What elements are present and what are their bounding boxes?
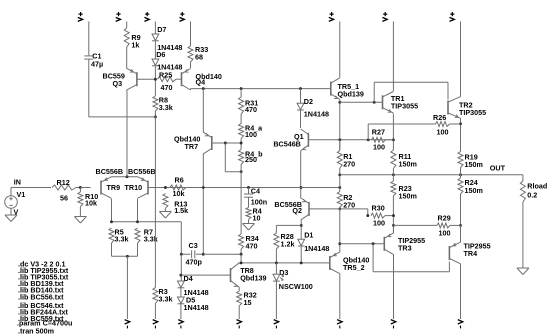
label TR9 <box>107 183 121 192</box>
label TR5_1 Qbd139 <box>338 90 364 99</box>
node R1/R2 mid rail end <box>338 186 341 189</box>
label R6 10k <box>173 189 185 198</box>
wire TR5_1 emitter down <box>339 100 341 150</box>
label R4_a <box>245 124 263 133</box>
svg-text:Q4: Q4 <box>196 77 206 86</box>
svg-text:Q3: Q3 <box>113 79 123 88</box>
resistor R7 <box>135 228 140 243</box>
node R30 right on column <box>392 214 395 217</box>
svg-text:TR7: TR7 <box>185 142 199 151</box>
label D1 1N4148 <box>304 244 329 253</box>
resistor R28 <box>274 233 279 249</box>
label Q2 <box>292 206 302 215</box>
node R12/R10/TR9 junction <box>79 186 82 189</box>
svg-text:3.3k: 3.3k <box>159 103 173 112</box>
wire TR4 base branch <box>373 244 449 272</box>
label R34 470 <box>246 242 258 251</box>
wire R34 node down <box>240 254 242 263</box>
wire C1 to R8 column <box>89 116 156 118</box>
label 68 <box>195 53 203 62</box>
svg-text:100: 100 <box>245 130 257 139</box>
wire R32 to V- <box>238 306 240 319</box>
svg-text:R12: R12 <box>57 178 70 187</box>
wire TR5_2 collector down <box>339 274 341 319</box>
node TR8 base junction <box>179 274 182 277</box>
label R6 <box>175 176 184 185</box>
node tail junction <box>126 175 129 178</box>
resistor R6 <box>170 185 186 190</box>
node OUT R19 <box>459 173 462 176</box>
resistor R27 <box>372 137 386 142</box>
wire D4 column down <box>180 254 182 281</box>
wire TR2 emitter down <box>460 118 462 151</box>
node R30 left <box>366 214 369 217</box>
resistor R9 <box>124 28 129 47</box>
node TR9 collector/R5 <box>110 220 113 223</box>
label R32 <box>244 291 257 300</box>
svg-text:1N4148: 1N4148 <box>184 303 209 312</box>
wire rail to R31 <box>240 89 242 97</box>
wire lower rail <box>241 262 330 264</box>
label R9 <box>131 33 140 42</box>
transistor TR9 BC556B <box>101 177 112 199</box>
svg-text:R29: R29 <box>438 214 451 223</box>
label D6 <box>156 50 165 59</box>
capacitor C4 100n <box>244 194 253 197</box>
label D4 1N4148 <box>184 288 209 297</box>
label Qbd140 Q4 <box>196 72 222 81</box>
resistor R12 <box>52 185 76 190</box>
diode D7 1N4148 <box>152 34 159 41</box>
transistor TR7 Qbd140 <box>203 132 212 154</box>
resistor R19 <box>458 152 463 168</box>
label R29 <box>438 214 451 223</box>
resistor R29 <box>437 223 450 228</box>
node R4ab junction <box>240 142 243 145</box>
label R33 <box>195 45 208 54</box>
wire D6 to node <box>154 67 156 97</box>
wire R5 bottom <box>111 243 113 256</box>
label TR1 TIP3055 <box>391 102 418 111</box>
wire V+ to C1 <box>88 22 90 56</box>
svg-text:TR4: TR4 <box>464 249 478 258</box>
wire D3 stub <box>275 263 277 274</box>
node R27 left <box>367 138 370 141</box>
wire D2 from rail <box>300 89 302 104</box>
label R27 100 <box>373 143 385 152</box>
power flag V+ flag TR5_1 <box>329 12 334 21</box>
wire R19 to rail <box>460 168 462 179</box>
label R4 10 <box>253 214 261 223</box>
power flag V- R32 <box>237 320 242 329</box>
label R5 3.3k <box>115 235 129 244</box>
power flag V+ flag R9 <box>116 12 121 21</box>
wire R4_b bypass <box>225 143 241 172</box>
label TR4 <box>464 249 478 258</box>
node R34 bottom <box>240 253 243 256</box>
node rail R34 column <box>240 261 243 264</box>
wire TR8 base <box>181 274 230 276</box>
svg-text:470: 470 <box>246 242 258 251</box>
svg-text:150m: 150m <box>399 192 417 201</box>
svg-text:1N4148: 1N4148 <box>304 110 329 119</box>
node TR7 emitter on rail <box>202 87 205 90</box>
svg-text:Q2: Q2 <box>292 206 302 215</box>
label R2 <box>343 193 352 202</box>
label R4_b 250 <box>245 155 257 164</box>
resistor R33 <box>188 46 193 62</box>
resistor R8 <box>153 96 158 111</box>
label R26 <box>433 113 446 122</box>
label TR5_1 <box>338 82 360 91</box>
svg-text:1.2k: 1.2k <box>281 240 295 249</box>
label 47u <box>91 60 103 69</box>
label R19 150m <box>465 160 483 169</box>
label R19 <box>465 153 478 162</box>
svg-text:R25: R25 <box>159 71 172 80</box>
wire R27 right lead <box>386 139 394 141</box>
node R4_b bottom <box>240 170 243 173</box>
wire Q1 junction to R1 <box>339 140 341 151</box>
label R23 150m <box>399 192 417 201</box>
svg-text:C4: C4 <box>251 187 260 196</box>
svg-text:.lib BC556.txt: .lib BC556.txt <box>18 292 64 301</box>
label D2 <box>304 97 313 106</box>
wire R9 to Q3 emitter <box>126 47 128 69</box>
label R12 <box>57 178 70 187</box>
transistor TR10 BC556B <box>138 177 149 199</box>
power flag V- D5 <box>178 320 183 329</box>
wire D5 to V- <box>180 304 182 319</box>
node C3 left <box>180 253 183 256</box>
label D3 <box>279 268 288 277</box>
wire D2 to Q1 collector <box>300 110 302 128</box>
label Rload <box>527 182 547 191</box>
node TR1 base junction <box>338 101 341 104</box>
transistor TR8 Qbd139 <box>231 263 240 287</box>
label TR5_2 <box>343 263 365 272</box>
wire Q1 emitter down <box>300 151 302 199</box>
label TR4 TIP2955 <box>464 242 491 251</box>
wire OUT rail <box>340 174 523 176</box>
node rail R28 <box>275 261 278 264</box>
power flag V- TR3 <box>391 320 396 329</box>
ground under R4 <box>243 220 255 231</box>
svg-text:250: 250 <box>245 155 257 164</box>
label R27 <box>372 128 385 137</box>
svg-text:TR3: TR3 <box>398 244 412 253</box>
label R24 <box>465 178 478 187</box>
label TR2 <box>459 101 473 110</box>
label R23 <box>399 184 412 193</box>
resistor R11 <box>391 150 396 169</box>
label 1.5k <box>174 206 188 215</box>
wire R11 to rail <box>392 169 394 182</box>
wire Q3 collector down <box>126 90 128 91</box>
label TR3 TIP2955 <box>398 236 425 245</box>
label R10 <box>85 192 98 201</box>
resistor R31 <box>239 97 244 114</box>
svg-text:0.2: 0.2 <box>527 190 537 199</box>
label R13 <box>174 199 187 208</box>
label 470 <box>161 83 173 92</box>
wire TR5_2 emitter up <box>339 244 341 252</box>
wire mid rail <box>165 187 339 189</box>
svg-text:TIP3055: TIP3055 <box>391 102 418 111</box>
label TR7 <box>185 142 199 151</box>
label R1 270 <box>343 159 355 168</box>
power flag V- D3 <box>274 320 279 329</box>
wire Q2 collector down <box>300 220 302 240</box>
resistor R32 <box>237 291 242 306</box>
svg-text:56: 56 <box>60 194 68 203</box>
power flag V+ flag D7 <box>144 12 149 21</box>
label TR7 Qbd140 <box>174 135 200 144</box>
wire Rload down <box>522 202 524 268</box>
svg-text:BC546B: BC546B <box>273 140 301 149</box>
label C3 <box>189 241 198 250</box>
resistor R1 <box>337 151 342 169</box>
label R4_a 100 <box>245 130 257 139</box>
wire TR3 base rail <box>340 243 385 245</box>
node R29 left on column <box>392 224 395 227</box>
label D2 1N4148 <box>304 110 329 119</box>
wire R26 branch <box>368 124 435 140</box>
label TR10 <box>125 183 143 192</box>
spice directives text block <box>17 260 72 336</box>
wire R1 to OUT rail node <box>339 168 341 192</box>
wire R26 right lead <box>450 123 461 125</box>
transistor Q1 BC546B <box>301 129 309 151</box>
wire R2 bottom to Q2 base row <box>339 208 341 209</box>
resistor Rload <box>520 181 525 202</box>
svg-text:TR5_2: TR5_2 <box>343 263 365 272</box>
node TR7 collector crossing <box>202 186 205 189</box>
wire tail horizontal <box>112 176 138 178</box>
wire C1 down <box>88 59 90 117</box>
node C4 top <box>247 186 250 189</box>
wire TR7 collector down <box>202 154 204 255</box>
wire V+ to R9 <box>126 22 128 29</box>
label BC556B left <box>96 167 124 176</box>
label R24 150m <box>465 186 483 195</box>
transistor TR4 TIP2955 <box>449 242 460 264</box>
resistor R25 <box>158 77 177 82</box>
svg-text:NSCW100: NSCW100 <box>279 282 313 291</box>
power flag V- R3 <box>153 320 158 329</box>
label R34 <box>246 234 259 243</box>
resistor R10 <box>78 188 83 207</box>
voltage source V1 <box>5 196 18 209</box>
resistor R24 <box>458 178 463 194</box>
svg-text:100n: 100n <box>251 198 267 207</box>
diode D1 1N4148 <box>298 239 305 246</box>
wire D3 to V- <box>275 282 277 320</box>
wire R4_a to junction <box>240 139 242 150</box>
label BC556B right <box>128 167 156 176</box>
power flag V+ flag C1 <box>78 12 83 21</box>
wire TR2 base branch <box>374 82 448 102</box>
label 0.2 <box>527 190 537 199</box>
svg-text:D6: D6 <box>156 50 165 59</box>
svg-text:68: 68 <box>195 53 203 62</box>
label R3 3.3k <box>159 295 173 304</box>
label R7 3.3k <box>144 235 158 244</box>
wire D7 to D6 <box>154 42 156 60</box>
svg-text:470: 470 <box>245 105 257 114</box>
resistor R23 <box>391 181 396 196</box>
wire R34 to C3 rail <box>240 249 242 254</box>
node D6/R25/Q3/R8 <box>154 78 157 81</box>
wire R8 to C1 node <box>154 111 156 117</box>
svg-text:D2: D2 <box>304 97 313 106</box>
ground under V1 <box>5 208 17 221</box>
wire VAS rail <box>191 88 331 90</box>
resistor R30 <box>371 213 385 218</box>
svg-text:100: 100 <box>373 219 385 228</box>
wire R31 to R4_a <box>240 114 242 124</box>
node R29 right <box>459 224 462 227</box>
resistor R4 <box>246 208 251 220</box>
label D5 <box>186 296 195 305</box>
svg-text:Qbd139: Qbd139 <box>240 274 266 283</box>
resistor R34 <box>239 234 244 249</box>
label 100n <box>251 198 267 207</box>
capacitor C1 47u <box>84 56 93 59</box>
label D7 1N4148 <box>157 43 182 52</box>
wire TR4 collector down <box>460 264 462 319</box>
label R4_b <box>245 150 263 159</box>
label R4 <box>253 207 262 216</box>
label R8 3.3k <box>159 103 173 112</box>
label 56 <box>60 194 68 203</box>
svg-text:100: 100 <box>437 128 449 137</box>
wire C3 rail to R34 <box>203 253 241 255</box>
wire TR7 base to R4 node <box>212 142 241 144</box>
wire collector rail <box>112 221 182 223</box>
wire R29 right lead <box>450 224 461 226</box>
node R31 top on rail <box>240 87 243 90</box>
label BC559 <box>103 72 125 81</box>
wire R12 to node <box>76 187 91 189</box>
label R31 470 <box>245 105 257 114</box>
wire R4_b to bottom node <box>240 165 242 172</box>
svg-text:270: 270 <box>343 200 355 209</box>
svg-text:470p: 470p <box>186 258 203 267</box>
node TR4 branch <box>372 242 375 245</box>
svg-text:15: 15 <box>244 298 252 307</box>
label R7 <box>144 228 153 237</box>
wire TR10 collector down <box>137 199 139 222</box>
wire C4 to R4 <box>248 197 250 207</box>
wire R29 left lead <box>394 224 438 226</box>
svg-text:OUT: OUT <box>490 164 506 173</box>
node TR2 base branch <box>373 101 376 104</box>
svg-text:3.3k: 3.3k <box>115 235 129 244</box>
wire R24 down <box>460 194 462 238</box>
svg-text:1N4148: 1N4148 <box>304 244 329 253</box>
wire TR5_1 collector to V+ <box>339 22 341 78</box>
node R1 bottom / OUT rail left <box>338 173 341 176</box>
ground under Rload <box>517 268 529 275</box>
node TR5_2 emitter rail <box>338 242 341 245</box>
label R25 <box>159 71 172 80</box>
label TR1 <box>391 94 405 103</box>
wire R28 to rail <box>275 249 277 263</box>
ground under R10 <box>74 207 86 224</box>
wire R33 to Q4 emitter <box>190 62 192 68</box>
svg-text:1k: 1k <box>131 41 139 50</box>
ground under R13 <box>159 208 171 218</box>
wire R30 branch <box>340 209 368 216</box>
wire Q1 base row <box>308 139 393 141</box>
wire to TR9 base <box>80 187 90 189</box>
svg-text:TR10: TR10 <box>125 183 143 192</box>
node rail D1 <box>300 261 303 264</box>
diode D4 1N4148 <box>178 281 185 288</box>
svg-text:1.5k: 1.5k <box>174 206 188 215</box>
wire down to V- tail <box>126 256 128 319</box>
resistor R3 <box>153 288 158 304</box>
label C4 <box>251 187 260 196</box>
wire V1 top to R12 <box>11 188 51 196</box>
label R26 100 <box>437 128 449 137</box>
svg-text:470: 470 <box>161 83 173 92</box>
node R26 right <box>459 122 462 125</box>
power flag V- TR5_2 <box>337 320 342 329</box>
label BC546B <box>273 140 301 149</box>
wire R25 to Q4 base <box>176 78 182 80</box>
node OUT R11 <box>392 173 395 176</box>
label R31 <box>245 99 258 108</box>
label D1 <box>304 231 313 240</box>
svg-text:R30: R30 <box>372 204 385 213</box>
wire TR3 collector down <box>393 255 395 320</box>
svg-text:TIP3055: TIP3055 <box>459 108 486 117</box>
label Q2 BC556B <box>274 200 302 209</box>
power flag V- tail <box>125 320 130 329</box>
transistor Q2 BC556B <box>301 198 309 220</box>
wire tail up to Q3 collector <box>126 91 128 177</box>
svg-text:100: 100 <box>439 229 451 238</box>
transistor TR5_2 Qbd140 <box>330 252 340 274</box>
label R11 <box>399 152 412 161</box>
power flag V+ flag TR1 <box>382 12 387 21</box>
label C1 <box>92 52 101 61</box>
label 1k <box>131 41 139 50</box>
node IN label <box>14 178 21 187</box>
label R11 150m <box>399 160 417 169</box>
node TR10 collector/R7 <box>136 220 139 223</box>
node C1/R8 junction <box>154 115 157 118</box>
wire TR1 emitter down <box>392 114 394 151</box>
wire OUT to Rload <box>522 175 524 181</box>
wire TR3 emitter up <box>393 225 395 233</box>
label D6 1N4148 <box>157 63 182 72</box>
wire V+ to R33 <box>190 22 192 47</box>
resistor R5 <box>109 228 114 243</box>
wire Q4 collector to VAS rail <box>190 89 192 90</box>
node Q2 base junction <box>338 207 341 210</box>
resistor R13 <box>163 194 168 209</box>
svg-text:Rload: Rload <box>527 182 547 191</box>
wire TR1 base row <box>340 101 383 103</box>
label 470p <box>186 258 203 267</box>
resistor R4_b <box>239 150 244 165</box>
wire R3 to V- <box>154 303 156 319</box>
label R2 270 <box>343 200 355 209</box>
power flag V- TR4 <box>458 320 463 329</box>
